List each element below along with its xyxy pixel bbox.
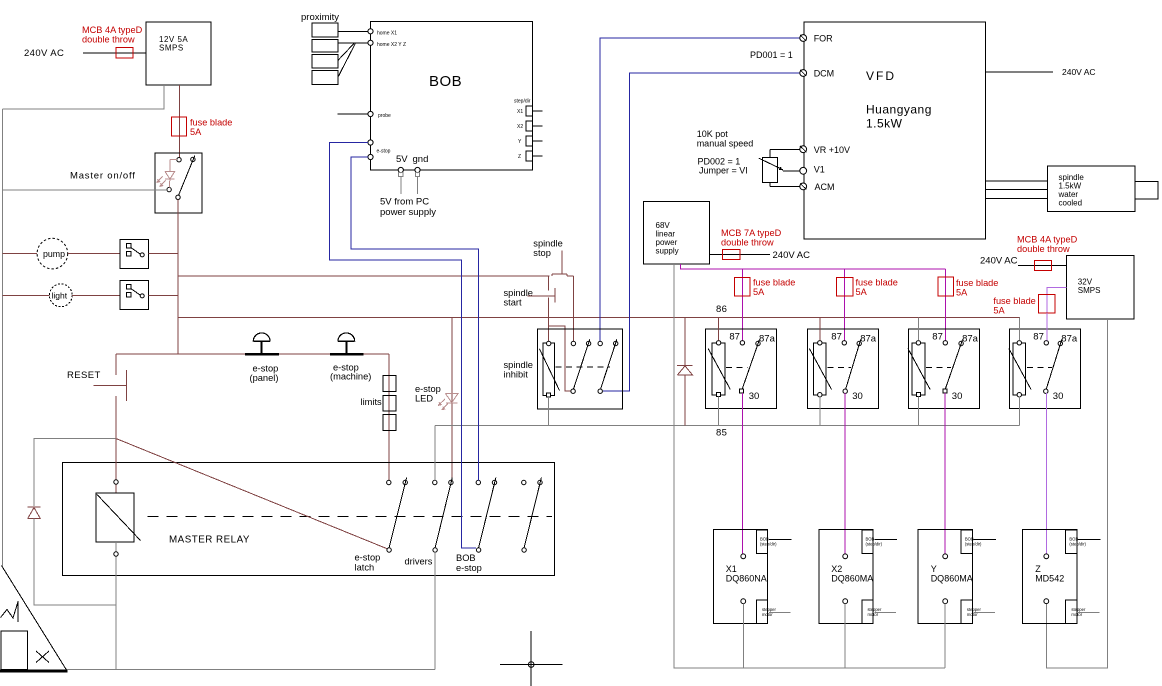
svg-text:spindle: spindle (533, 239, 562, 249)
svg-text:87: 87 (1033, 332, 1044, 343)
wire proximity 3 diagonal (338, 44, 354, 61)
pin 30 K4 (Z) (1044, 389, 1048, 393)
svg-text:Master on/off: Master on/off (70, 171, 136, 182)
contact arm 1 spindle inhibit (571, 389, 575, 393)
svg-text:240V AC: 240V AC (24, 48, 64, 59)
wire e-stop chain to limits (364, 353, 389, 355)
dashed actuation line master relay (148, 516, 553, 518)
svg-text:ACM: ACM (815, 182, 835, 192)
svg-text:240V AC: 240V AC (1062, 67, 1096, 77)
svg-text:proximity: proximity (301, 12, 339, 23)
stepper driver Z (1023, 529, 1077, 623)
wire coil K3 (Y) top to 86 rail (917, 317, 919, 340)
svg-text:fuse blade: fuse blade (190, 118, 232, 128)
svg-text:limits: limits (361, 397, 383, 407)
svg-text:SMPS: SMPS (159, 44, 184, 53)
wire VFD to spindle W (986, 197, 1048, 199)
contact BOB e-stop (master relay) (476, 480, 480, 484)
svg-text:MCB 4A typeD: MCB 4A typeD (1017, 235, 1078, 245)
pin 87 K4 (Z) (1044, 341, 1048, 345)
wire 32V SMPS ground (1046, 319, 1107, 668)
svg-text:87: 87 (729, 332, 740, 343)
svg-text:240V AC: 240V AC (773, 250, 811, 261)
fuse blade 5A (relay 1) (741, 269, 743, 341)
fuse blade 5A (32V) (1046, 295, 1048, 314)
svg-text:MCB 4A typeD: MCB 4A typeD (82, 25, 143, 35)
svg-text:BOB: BOB (429, 73, 462, 90)
svg-text:5V from PC: 5V from PC (380, 197, 429, 208)
svg-text:double throw: double throw (1017, 244, 1070, 254)
coil K4 (Z) (1013, 343, 1026, 395)
svg-text:X2: X2 (517, 124, 523, 130)
svg-text:start: start (504, 298, 522, 308)
svg-text:drivers: drivers (405, 557, 433, 567)
pin A spindle inhibit (571, 341, 575, 345)
svg-text:5A: 5A (993, 306, 1005, 316)
svg-text:(step/dir): (step/dir) (865, 542, 882, 547)
svg-text:fuse blade: fuse blade (993, 296, 1035, 306)
wire spindle inhibit coil to 85 rail (548, 397, 550, 425)
wire VFD to spindle V (986, 189, 1048, 191)
e-stop (machine) mushroom button (338, 333, 355, 341)
svg-text:(panel): (panel) (250, 373, 279, 383)
svg-text:30: 30 (852, 391, 863, 402)
svg-text:87a: 87a (962, 334, 979, 345)
power supply 68V linear (643, 202, 709, 265)
contact arm K2 (X2) (846, 340, 861, 390)
stepper driver X1 (713, 529, 767, 623)
svg-text:fuse blade: fuse blade (856, 278, 898, 288)
power supply 12V 5A SMPS (146, 22, 211, 85)
contact drivers (master relay) (433, 480, 437, 484)
proximity sensor 4 (312, 70, 338, 84)
svg-text:Y: Y (931, 564, 937, 574)
pin home X1 (368, 29, 373, 34)
svg-text:e-stop: e-stop (355, 553, 381, 563)
VFD Huangyang 1.5kW (804, 22, 986, 239)
net bottom ground rail (0, 669, 435, 671)
pin 87 K1 (X1) (740, 341, 744, 345)
pushbutton RESET (115, 354, 117, 375)
diode D2 (relay rail flyback) (684, 317, 686, 365)
svg-text:fuse blade: fuse blade (753, 278, 795, 288)
wire 240V AC to MCB (83, 52, 146, 54)
switch arm Master on/off (179, 156, 195, 196)
svg-text:(step/dir): (step/dir) (760, 542, 777, 547)
lamp light (49, 284, 72, 307)
pin gnd Y (943, 599, 948, 604)
wire proximity 2 to home X2 pin (338, 42, 368, 44)
wire 68V PSU ground (673, 264, 675, 669)
wire coil K2 (X2) bottom to 85 rail (819, 397, 821, 426)
svg-text:latch: latch (355, 563, 375, 573)
proximity sensor 2 (312, 39, 338, 52)
contact arm K3 (Y) (945, 340, 962, 390)
svg-text:30: 30 (952, 391, 963, 402)
wire VFD DCM to spindle inhibit relay (blue) (603, 73, 800, 391)
wire proximity 4 diagonal (338, 44, 355, 78)
svg-text:PD001 = 1: PD001 = 1 (750, 50, 793, 60)
earth square symbol (1, 631, 28, 670)
contact arm 2 spindle inhibit (598, 389, 602, 393)
switch Master on/off (155, 153, 202, 213)
pin 5V (398, 167, 403, 172)
wire coil K1 (X1) top to 86 rail (718, 317, 720, 340)
pin 87a K3 (Y) (959, 341, 963, 345)
dashed actuation line K1 (X1) (726, 367, 748, 369)
svg-text:VFD: VFD (866, 69, 896, 83)
svg-text:probe: probe (378, 113, 391, 119)
dashed actuation line K4 (Z) (1027, 367, 1052, 369)
wire Master on/off aux to left rail (3, 189, 167, 191)
spindle shaft box (1135, 182, 1158, 200)
wire VFD to spindle U (986, 180, 1048, 182)
contact spare (master relay) (522, 480, 526, 484)
svg-text:supply: supply (656, 247, 679, 256)
svg-text:manual speed: manual speed (697, 138, 754, 148)
svg-text:30: 30 (1053, 391, 1064, 402)
wire X2 to ground rail (844, 604, 846, 668)
svg-text:1.5kW: 1.5kW (866, 117, 903, 131)
LED master power indicator (170, 159, 177, 161)
svg-text:LED: LED (415, 393, 433, 403)
svg-text:87: 87 (831, 332, 842, 343)
fuse blade 5A (12V feed) (172, 117, 187, 136)
svg-text:SMPS: SMPS (1078, 286, 1101, 295)
mains earth / supply triangle symbol (2, 566, 67, 671)
dashed actuation line spindle inhibit (556, 366, 610, 368)
svg-text:light: light (52, 291, 68, 301)
fuse blade 5A (relay 2) (843, 269, 845, 341)
wire spindle stop to inhibit contact A (572, 276, 574, 341)
stepper driver Y (918, 529, 972, 623)
pin DCM (800, 70, 807, 77)
wire relay K2 30 to driver X2 (magenta) (844, 393, 846, 553)
relay K3 (Y) enclosure (908, 329, 979, 409)
wire light to light switch (72, 294, 120, 296)
pin power X1 (741, 554, 746, 559)
wire left rail to pump (3, 253, 38, 255)
limit switches (3x) (383, 376, 396, 392)
svg-text:5A: 5A (753, 287, 765, 297)
wire 32V output to fuse (violet) (1047, 288, 1067, 295)
net 12V rail 1 (spindle control feed) (178, 275, 549, 277)
svg-text:spindle: spindle (504, 360, 533, 370)
coil master relay (115, 439, 117, 494)
wire 32V fuse to relay K4 87 (violet) (1046, 313, 1048, 340)
pin 30 K2 (X2) (843, 389, 847, 393)
diode D1 master relay flyback, with loop wire (34, 439, 116, 507)
left ground rail (2, 109, 4, 566)
coil K2 (X2) (813, 343, 826, 395)
pin power Z (1044, 554, 1049, 559)
dashed actuation line K2 (X2) (827, 367, 851, 369)
svg-text:DCM: DCM (814, 69, 835, 79)
pin gnd X2 (843, 599, 848, 604)
X mark (36, 651, 49, 663)
proximity sensor 3 (312, 55, 338, 68)
svg-text:X2: X2 (831, 564, 842, 574)
svg-text:Jumper = VI: Jumper = VI (699, 166, 748, 176)
svg-text:cooled: cooled (1059, 199, 1083, 208)
wire pump to pump switch (68, 253, 120, 255)
svg-text:DQ860MA: DQ860MA (931, 574, 973, 584)
pin B spindle inhibit (586, 341, 590, 345)
wire light switch to 12V rail (148, 294, 178, 296)
motor pump (37, 238, 68, 269)
power supply 32V SMPS (1067, 256, 1134, 319)
net driver ground rail (674, 667, 945, 669)
svg-text:motor: motor (967, 612, 978, 617)
svg-text:(step/dir): (step/dir) (1069, 542, 1086, 547)
wire relay K4 30 to driver Z (violet) (1045, 393, 1047, 553)
svg-text:motor: motor (867, 612, 878, 617)
wire coil K1 (X1) bottom to 85 rail (718, 397, 720, 426)
pin 87a K4 (Z) (1058, 341, 1062, 345)
svg-text:step/dir: step/dir (514, 99, 531, 105)
svg-text:X1: X1 (517, 109, 523, 115)
circuit breaker MCB 4A typeD double throw (12V SMPS) (116, 48, 133, 59)
svg-text:V1: V1 (814, 164, 825, 174)
wire relay K3 30 to driver Y (magenta) (944, 393, 946, 553)
motor spindle 1.5kW water cooled (1048, 166, 1135, 212)
svg-text:87a: 87a (759, 334, 776, 345)
svg-text:85: 85 (716, 428, 727, 439)
wire latch diagonal (coil node to e-stop latch contact) (116, 439, 389, 550)
pin e-stop 1 (BOB) (368, 140, 373, 145)
pin D spindle inhibit (DCM side) (614, 341, 618, 345)
wire BOB e-stop pin1 to master relay BOB e-stop contact (blue) (330, 143, 477, 548)
coil spindle inhibit (543, 343, 555, 396)
svg-text:motor: motor (762, 612, 773, 617)
wire left rail to light (3, 294, 50, 296)
wire 85 rail from drivers contact (434, 425, 436, 480)
svg-text:VR +10V: VR +10V (814, 145, 850, 155)
contact e-stop latch (master relay) (387, 480, 391, 484)
stub wire 5V (399, 172, 403, 176)
pin 87a K2 (X2) (857, 341, 861, 345)
pin C spindle inhibit (FOR) (598, 341, 602, 345)
svg-text:double throw: double throw (82, 35, 135, 45)
breakout board BOB (371, 22, 533, 171)
wire Master on/off output (12V switched) (177, 200, 179, 355)
svg-text:DQ860NA: DQ860NA (726, 574, 767, 584)
pin 30 K1 (X1) (740, 389, 744, 393)
pin gnd (415, 167, 420, 172)
pin e-stop 2 (BOB) (368, 154, 373, 159)
wire VFD mains input 240V AC (986, 71, 1053, 73)
wire proximity 1 to home X1 pin (338, 30, 368, 32)
potentiometer 10K (762, 157, 777, 182)
svg-text:(machine): (machine) (330, 372, 371, 382)
net 12V rail 2 (relay 86 feed) (178, 316, 1020, 318)
wire pump switch to 12V rail (148, 253, 178, 255)
wire SMPS 12V output to fuse (179, 85, 181, 158)
svg-text:motor: motor (1071, 612, 1082, 617)
wire relay K1 30 to driver X1 (magenta) (741, 393, 743, 553)
contact arm K4 (Z) (1046, 340, 1062, 390)
svg-text:fuse blade: fuse blade (956, 278, 998, 288)
relay K1 (X1) enclosure (705, 329, 776, 409)
svg-text:double throw: double throw (721, 238, 774, 248)
stepper driver X2 (819, 529, 873, 623)
relay K2 (X2) enclosure (807, 329, 878, 409)
svg-text:FOR: FOR (814, 34, 833, 44)
svg-text:87: 87 (932, 332, 943, 343)
pin 30 K3 (Y) (943, 389, 947, 393)
pin VR +10V (800, 146, 807, 153)
svg-text:5A: 5A (856, 287, 868, 297)
pin 87a K1 (X1) (756, 341, 760, 345)
svg-text:240V AC: 240V AC (980, 256, 1018, 267)
dashed actuation line K3 (Y) (926, 367, 951, 369)
svg-text:87a: 87a (860, 334, 877, 345)
LED e-stop indicator (445, 393, 458, 402)
wire Y to ground rail (944, 604, 946, 668)
coil K1 (X1) (712, 343, 725, 395)
earth zigzag symbol (1, 601, 19, 618)
svg-text:pump: pump (43, 249, 65, 259)
net 68V output rail (magenta) (681, 264, 946, 269)
svg-text:Z: Z (1035, 564, 1041, 574)
svg-text:X1: X1 (726, 564, 737, 574)
svg-text:30: 30 (749, 391, 760, 402)
svg-text:MCB 7A typeD: MCB 7A typeD (721, 228, 782, 238)
wire coil K4 (Z) top to 86 rail (1018, 317, 1020, 340)
wire master relay coil to ground rail (115, 542, 117, 670)
pin V1 (800, 167, 807, 174)
pin gnd X1 (741, 599, 746, 604)
net e-stop supply rail (116, 353, 389, 355)
wire SMPS return to left rail (3, 85, 165, 109)
svg-text:5V: 5V (396, 154, 408, 165)
wire drivers contact to ground rail (434, 552, 436, 670)
relay MASTER RELAY enclosure (63, 463, 555, 576)
proximity sensor 1 (312, 23, 338, 37)
wire coil K2 (X2) top to 86 rail (819, 317, 821, 340)
pin probe (338, 113, 368, 115)
svg-text:Z: Z (518, 154, 521, 160)
wire VFD FOR to spindle inhibit relay (blue) (600, 38, 799, 341)
fuse blade 5A (relay 3) (944, 269, 946, 341)
svg-text:inhibit: inhibit (504, 370, 529, 380)
svg-text:5A: 5A (956, 288, 968, 298)
switch pump on/off (120, 240, 148, 269)
relay K4 (Z) enclosure (1009, 329, 1080, 409)
pin FOR (800, 35, 807, 42)
svg-text:RESET: RESET (67, 370, 101, 381)
svg-text:86: 86 (716, 304, 727, 315)
wire coil K3 (Y) bottom to 85 rail (917, 397, 919, 426)
wire 12V to e-stop LED to master relay contact (451, 317, 453, 480)
e-stop (panel) mushroom button (253, 333, 270, 341)
pin power X2 (843, 554, 848, 559)
svg-text:Huangyang: Huangyang (866, 103, 932, 117)
contact arm K1 (X1) (742, 340, 759, 390)
svg-text:(step/dir): (step/dir) (965, 542, 982, 547)
svg-text:home X2 Y Z: home X2 Y Z (377, 42, 406, 48)
pin home X2 Y Z (368, 40, 373, 45)
pin gnd Z (1044, 599, 1049, 604)
pin power Y (943, 554, 948, 559)
svg-text:gnd: gnd (413, 154, 429, 165)
svg-text:home X1: home X1 (377, 30, 397, 36)
wire BOB e-stop pin2 to master relay BOB e-stop contact top (blue) (351, 157, 478, 480)
switch light on/off (120, 281, 148, 310)
pin 87 K2 (X2) (842, 341, 846, 345)
svg-text:e-stop: e-stop (456, 563, 482, 573)
pin 87 K3 (Y) (943, 341, 947, 345)
svg-text:5A: 5A (190, 127, 202, 137)
svg-text:power supply: power supply (380, 207, 436, 218)
svg-text:MD542: MD542 (1035, 574, 1064, 584)
pin ACM (800, 183, 807, 190)
coil K3 (Y) (912, 343, 925, 395)
svg-text:DQ860MA: DQ860MA (831, 574, 873, 584)
svg-text:stop: stop (533, 248, 551, 258)
crosshair origin marker (500, 664, 563, 666)
relay spindle inhibit enclosure (538, 329, 623, 409)
svg-text:MASTER RELAY: MASTER RELAY (169, 535, 250, 546)
stub wire gnd (415, 172, 419, 176)
net 85 rail (435, 424, 1020, 426)
svg-text:87a: 87a (1061, 334, 1078, 345)
svg-text:e-stop: e-stop (377, 148, 391, 154)
svg-text:BOB: BOB (456, 553, 476, 563)
wire X1 to ground rail (742, 604, 744, 668)
wire spindle start to inhibit coil / latch contact (549, 326, 571, 391)
wire coil K4 (Z) bottom to 85 rail (1018, 397, 1020, 426)
